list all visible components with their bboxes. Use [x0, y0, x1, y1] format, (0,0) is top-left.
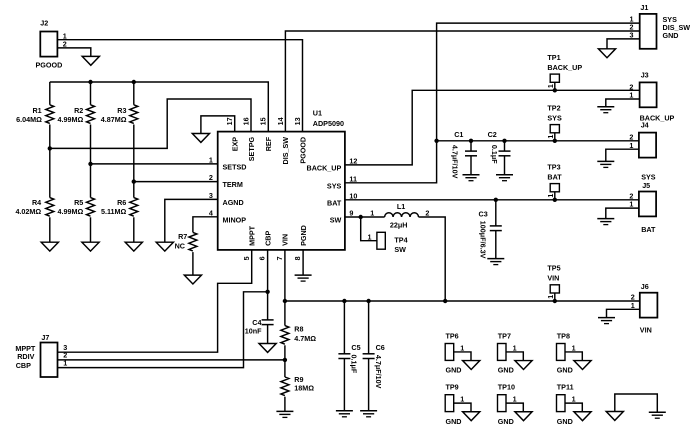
capacitor C6 4.7uF/10V — [363, 301, 385, 411]
svg-text:PGOOD: PGOOD — [298, 137, 307, 164]
svg-text:2: 2 — [209, 173, 213, 182]
ground C1 — [463, 175, 480, 181]
svg-text:TP4: TP4 — [394, 235, 407, 244]
capacitor C4 10nF — [245, 318, 274, 343]
wire PGOOD J2.1 to U1.13 — [57, 40, 302, 132]
svg-text:GND: GND — [446, 417, 462, 426]
wire J5.1 to ground — [606, 208, 639, 218]
svg-text:C3: C3 — [479, 209, 488, 218]
svg-text:PGOOD: PGOOD — [36, 61, 63, 70]
ground C3 — [487, 259, 504, 265]
svg-text:R6: R6 — [117, 198, 126, 207]
junction C6 — [366, 299, 370, 303]
wire J1.3 to ground — [607, 39, 640, 49]
svg-text:1: 1 — [460, 343, 464, 352]
svg-text:R5: R5 — [74, 198, 83, 207]
svg-text:13: 13 — [293, 117, 302, 125]
test point TP11 GND — [557, 383, 583, 426]
svg-text:TERM: TERM — [223, 180, 243, 189]
svg-text:J6: J6 — [641, 282, 649, 291]
junction SW-TP4 — [359, 215, 363, 219]
resistor R3 4.87Mohm — [101, 82, 138, 182]
svg-text:TP3: TP3 — [547, 162, 560, 171]
wire VIN rail to J6.2 — [285, 300, 640, 302]
svg-text:15: 15 — [259, 117, 268, 125]
svg-text:R8: R8 — [294, 325, 303, 334]
svg-text:GND: GND — [498, 366, 514, 375]
svg-text:18MΩ: 18MΩ — [294, 384, 314, 393]
wire J3.1 to ground — [606, 99, 640, 107]
svg-text:2: 2 — [425, 208, 429, 217]
svg-text:1: 1 — [513, 395, 517, 404]
svg-text:NC: NC — [175, 241, 185, 250]
ground TP9 — [463, 412, 480, 421]
svg-text:9: 9 — [349, 209, 353, 218]
junction VIN-R8 — [283, 299, 287, 303]
svg-text:MPPT: MPPT — [248, 225, 257, 246]
svg-text:4: 4 — [209, 208, 213, 217]
svg-text:10: 10 — [349, 191, 357, 200]
ground TP8 — [574, 361, 591, 370]
svg-text:GND: GND — [498, 417, 514, 426]
svg-text:GND: GND — [557, 366, 573, 375]
inductor L1 22uH — [370, 202, 429, 230]
junction TP2 — [553, 139, 557, 143]
svg-text:SYS: SYS — [547, 113, 562, 122]
svg-text:PGND: PGND — [299, 225, 308, 246]
svg-text:TP10: TP10 — [498, 383, 515, 392]
svg-text:J4: J4 — [641, 121, 649, 130]
ground J5 — [597, 219, 614, 225]
wire SETPG rail to U1.16 — [50, 99, 251, 148]
wire BAT U1.10 to J5.2 — [345, 199, 639, 201]
junction REF-R3 — [132, 80, 136, 84]
svg-text:1: 1 — [546, 295, 555, 299]
junction R1-SETPG — [48, 146, 52, 150]
svg-text:6.04MΩ: 6.04MΩ — [16, 115, 42, 124]
connector J5 — [629, 181, 656, 234]
ground PGND — [295, 275, 312, 281]
ground TP11 — [574, 412, 591, 421]
svg-text:0.1μF: 0.1μF — [490, 145, 499, 164]
wire CBP U1.6 to C4 — [267, 250, 269, 320]
svg-text:TP8: TP8 — [557, 331, 570, 340]
svg-text:BAT: BAT — [547, 172, 562, 181]
svg-text:TP5: TP5 — [547, 264, 560, 273]
svg-text:TP1: TP1 — [547, 53, 560, 62]
svg-text:1: 1 — [631, 301, 635, 310]
junction CBP — [265, 290, 269, 294]
svg-text:1: 1 — [629, 141, 633, 150]
svg-text:1: 1 — [63, 358, 67, 367]
connector J7 — [15, 333, 67, 377]
ground TP7 — [515, 361, 532, 370]
ground J1 — [598, 49, 615, 58]
svg-text:TP7: TP7 — [498, 331, 511, 340]
wire J6.1 to ground — [607, 309, 640, 317]
svg-text:1: 1 — [546, 84, 555, 88]
test point TP7 GND — [498, 331, 524, 374]
ground J2 — [82, 56, 99, 65]
test point TP8 GND — [557, 331, 583, 374]
capacitor C5 0.1uF — [338, 301, 360, 411]
resistor R4 4.02Mohm — [15, 148, 53, 242]
wire VIN U1.7 to rail — [284, 250, 286, 301]
svg-text:BACK_UP: BACK_UP — [547, 63, 582, 72]
svg-text:5: 5 — [242, 256, 251, 260]
junction SYS riser — [434, 139, 438, 143]
wire TERM R3 to U1.2 — [134, 181, 218, 183]
junction REF-R2 — [88, 80, 92, 84]
svg-text:1: 1 — [629, 91, 633, 100]
svg-text:1: 1 — [513, 343, 517, 352]
svg-text:4.87MΩ: 4.87MΩ — [101, 115, 127, 124]
svg-text:1: 1 — [629, 200, 633, 209]
test point TP3 BAT — [546, 162, 562, 200]
svg-text:MINOP: MINOP — [223, 215, 247, 224]
svg-text:J2: J2 — [40, 19, 48, 28]
ground TP6 — [463, 361, 480, 370]
connector J4 — [629, 121, 656, 182]
svg-text:16: 16 — [241, 117, 250, 125]
svg-text:1: 1 — [546, 135, 555, 139]
svg-text:10nF: 10nF — [245, 327, 262, 336]
wire J2.2 to ground — [57, 48, 90, 56]
svg-text:R4: R4 — [32, 198, 41, 207]
capacitor C1 4.7uF/10V — [451, 130, 477, 179]
svg-text:1: 1 — [572, 395, 576, 404]
junction TP3 — [553, 198, 557, 202]
svg-text:DIS_SW: DIS_SW — [281, 137, 290, 165]
ground R4 — [41, 242, 58, 251]
svg-text:RDIV: RDIV — [17, 352, 34, 361]
svg-text:J5: J5 — [642, 181, 650, 190]
svg-text:22μH: 22μH — [390, 221, 408, 230]
ground TP10 — [515, 412, 532, 421]
junction TP1 — [553, 88, 557, 92]
svg-text:SW: SW — [394, 245, 406, 254]
wire ground tie — [615, 394, 658, 412]
svg-text:C5: C5 — [351, 343, 360, 352]
svg-text:4.02MΩ: 4.02MΩ — [15, 207, 41, 216]
junction R2-SETSD — [88, 162, 92, 166]
svg-text:1: 1 — [209, 156, 213, 165]
svg-text:3: 3 — [630, 31, 634, 40]
wire RDIV J7.2 to R8/R9 — [58, 359, 285, 361]
junction C3 — [494, 198, 498, 202]
test point TP10 GND — [498, 383, 524, 426]
ground J4 — [597, 161, 614, 167]
resistor R8 4.7Mohm — [281, 301, 316, 360]
resistor R5 4.99Mohm — [58, 164, 95, 242]
wire SETSD R2 to U1.1 — [91, 163, 218, 165]
ground R6 — [125, 242, 142, 251]
wire BACK_UP U1.12 to J3.2 — [345, 90, 640, 165]
resistor R2 4.99Mohm — [58, 82, 95, 164]
svg-text:8: 8 — [293, 256, 302, 260]
svg-text:1: 1 — [546, 194, 555, 198]
wire AGND U1.3 to ground — [165, 199, 218, 242]
svg-text:C2: C2 — [488, 130, 497, 139]
junction C2 — [502, 139, 506, 143]
svg-text:R7: R7 — [178, 232, 187, 241]
svg-text:TP9: TP9 — [446, 383, 459, 392]
svg-text:CBP: CBP — [263, 231, 272, 246]
wire MPPT U1.5 to J7.3 — [58, 250, 252, 352]
wire MINOP U1.4 to R7 — [193, 217, 218, 233]
resistor R9 18Mohm — [281, 360, 314, 411]
svg-text:SYS: SYS — [327, 181, 342, 190]
wire REF rail to U1.15 — [50, 82, 268, 132]
svg-text:17: 17 — [225, 117, 234, 125]
svg-text:11: 11 — [349, 174, 357, 183]
svg-text:BAT: BAT — [327, 198, 342, 207]
junction TP5 — [553, 299, 557, 303]
svg-text:VIN: VIN — [547, 274, 559, 283]
svg-text:1: 1 — [572, 343, 576, 352]
test point TP9 GND — [445, 383, 471, 426]
svg-text:BAT: BAT — [641, 225, 656, 234]
ground EXP — [192, 134, 209, 143]
capacitor C3 100uF/6.3V — [479, 200, 502, 259]
ground C2 — [496, 175, 513, 181]
svg-text:SETPG: SETPG — [247, 137, 256, 162]
svg-text:CBP: CBP — [16, 361, 31, 370]
IC U1 ADP5090 — [209, 109, 358, 261]
ground C6 — [360, 411, 377, 417]
svg-text:4.7MΩ: 4.7MΩ — [294, 334, 316, 343]
test point TP4 SW — [368, 232, 408, 254]
svg-text:6: 6 — [258, 256, 267, 260]
ground R7 — [184, 275, 201, 284]
svg-text:100μF/6.3V: 100μF/6.3V — [479, 221, 488, 259]
ground R9 — [276, 411, 293, 417]
resistor R6 5.11Mohm — [101, 182, 138, 243]
svg-text:EXP: EXP — [231, 137, 240, 152]
ground J6 — [598, 318, 615, 324]
wire CBP branch to J7.1 — [58, 292, 268, 368]
svg-text:L1: L1 — [397, 202, 405, 211]
svg-text:VIN: VIN — [281, 234, 290, 246]
junction C1 — [469, 139, 473, 143]
test point TP5 VIN — [546, 264, 560, 302]
svg-text:VIN: VIN — [640, 325, 652, 334]
svg-text:SW: SW — [330, 216, 342, 225]
svg-text:3: 3 — [209, 191, 213, 200]
connector J3 — [629, 70, 674, 122]
wire L1.2 to VIN rail — [419, 217, 446, 301]
wire SYS rail — [437, 140, 639, 142]
svg-text:5.11MΩ: 5.11MΩ — [101, 207, 127, 216]
svg-text:4.99MΩ: 4.99MΩ — [58, 207, 84, 216]
junction RDIV — [283, 358, 287, 362]
svg-text:4.7μF/10V: 4.7μF/10V — [374, 355, 383, 389]
ground J3 — [597, 107, 614, 113]
capacitor C2 0.1uF — [488, 130, 511, 174]
svg-text:TP11: TP11 — [557, 383, 574, 392]
test point TP1 BACK_UP — [546, 53, 582, 91]
svg-text:J7: J7 — [41, 333, 49, 342]
ground R5 — [82, 242, 99, 251]
svg-text:TP6: TP6 — [446, 331, 459, 340]
junction L1 riser — [443, 299, 447, 303]
svg-text:TP2: TP2 — [547, 103, 560, 112]
svg-text:4.7μF/10V: 4.7μF/10V — [451, 145, 460, 179]
svg-text:1: 1 — [460, 395, 464, 404]
svg-text:2: 2 — [63, 40, 67, 49]
wire J4.1 to ground — [606, 149, 639, 161]
ground C4 — [259, 344, 276, 353]
svg-text:BACK_UP: BACK_UP — [307, 164, 342, 173]
wire TP4 branch — [361, 217, 377, 241]
svg-text:1: 1 — [368, 232, 372, 241]
svg-text:7: 7 — [275, 256, 284, 260]
svg-text:GND: GND — [446, 366, 462, 375]
connector J1 — [630, 3, 691, 49]
svg-text:J3: J3 — [641, 70, 649, 79]
ground tie triangle — [606, 412, 623, 421]
resistor R7 NC — [175, 232, 197, 275]
junction C5 — [342, 299, 346, 303]
wire SYS U1.11 to J1.1 — [345, 23, 640, 183]
ground tie earth — [649, 412, 666, 418]
svg-text:REF: REF — [264, 136, 273, 151]
wire SW U1.9 to L1 — [345, 216, 385, 218]
svg-text:GND: GND — [557, 417, 573, 426]
svg-text:12: 12 — [349, 157, 357, 166]
svg-text:4.99MΩ: 4.99MΩ — [58, 115, 84, 124]
ground AGND — [156, 242, 173, 251]
svg-text:AGND: AGND — [223, 198, 244, 207]
svg-text:C6: C6 — [376, 343, 385, 352]
wire EXP U1.17 to ground — [201, 116, 235, 133]
wire DIS_SW U1.14 to J1.2 — [285, 31, 639, 132]
svg-text:14: 14 — [276, 117, 285, 125]
svg-text:1: 1 — [370, 208, 374, 217]
svg-text:ADP5090: ADP5090 — [313, 119, 344, 128]
test point TP6 GND — [445, 331, 471, 374]
svg-text:C1: C1 — [454, 130, 463, 139]
svg-text:GND: GND — [663, 31, 679, 40]
svg-text:SETSD: SETSD — [223, 163, 247, 172]
connector J6 — [631, 282, 658, 335]
svg-text:0.1μF: 0.1μF — [349, 355, 358, 374]
junction R3-TERM — [132, 179, 136, 183]
test point TP2 SYS — [546, 103, 562, 141]
svg-text:J1: J1 — [640, 3, 648, 12]
svg-text:U1: U1 — [313, 109, 322, 118]
connector J2 — [36, 19, 67, 70]
wire PGND U1.8 to ground — [302, 250, 304, 275]
resistor R1 6.04Mohm — [16, 82, 54, 148]
ground C5 — [336, 411, 353, 417]
